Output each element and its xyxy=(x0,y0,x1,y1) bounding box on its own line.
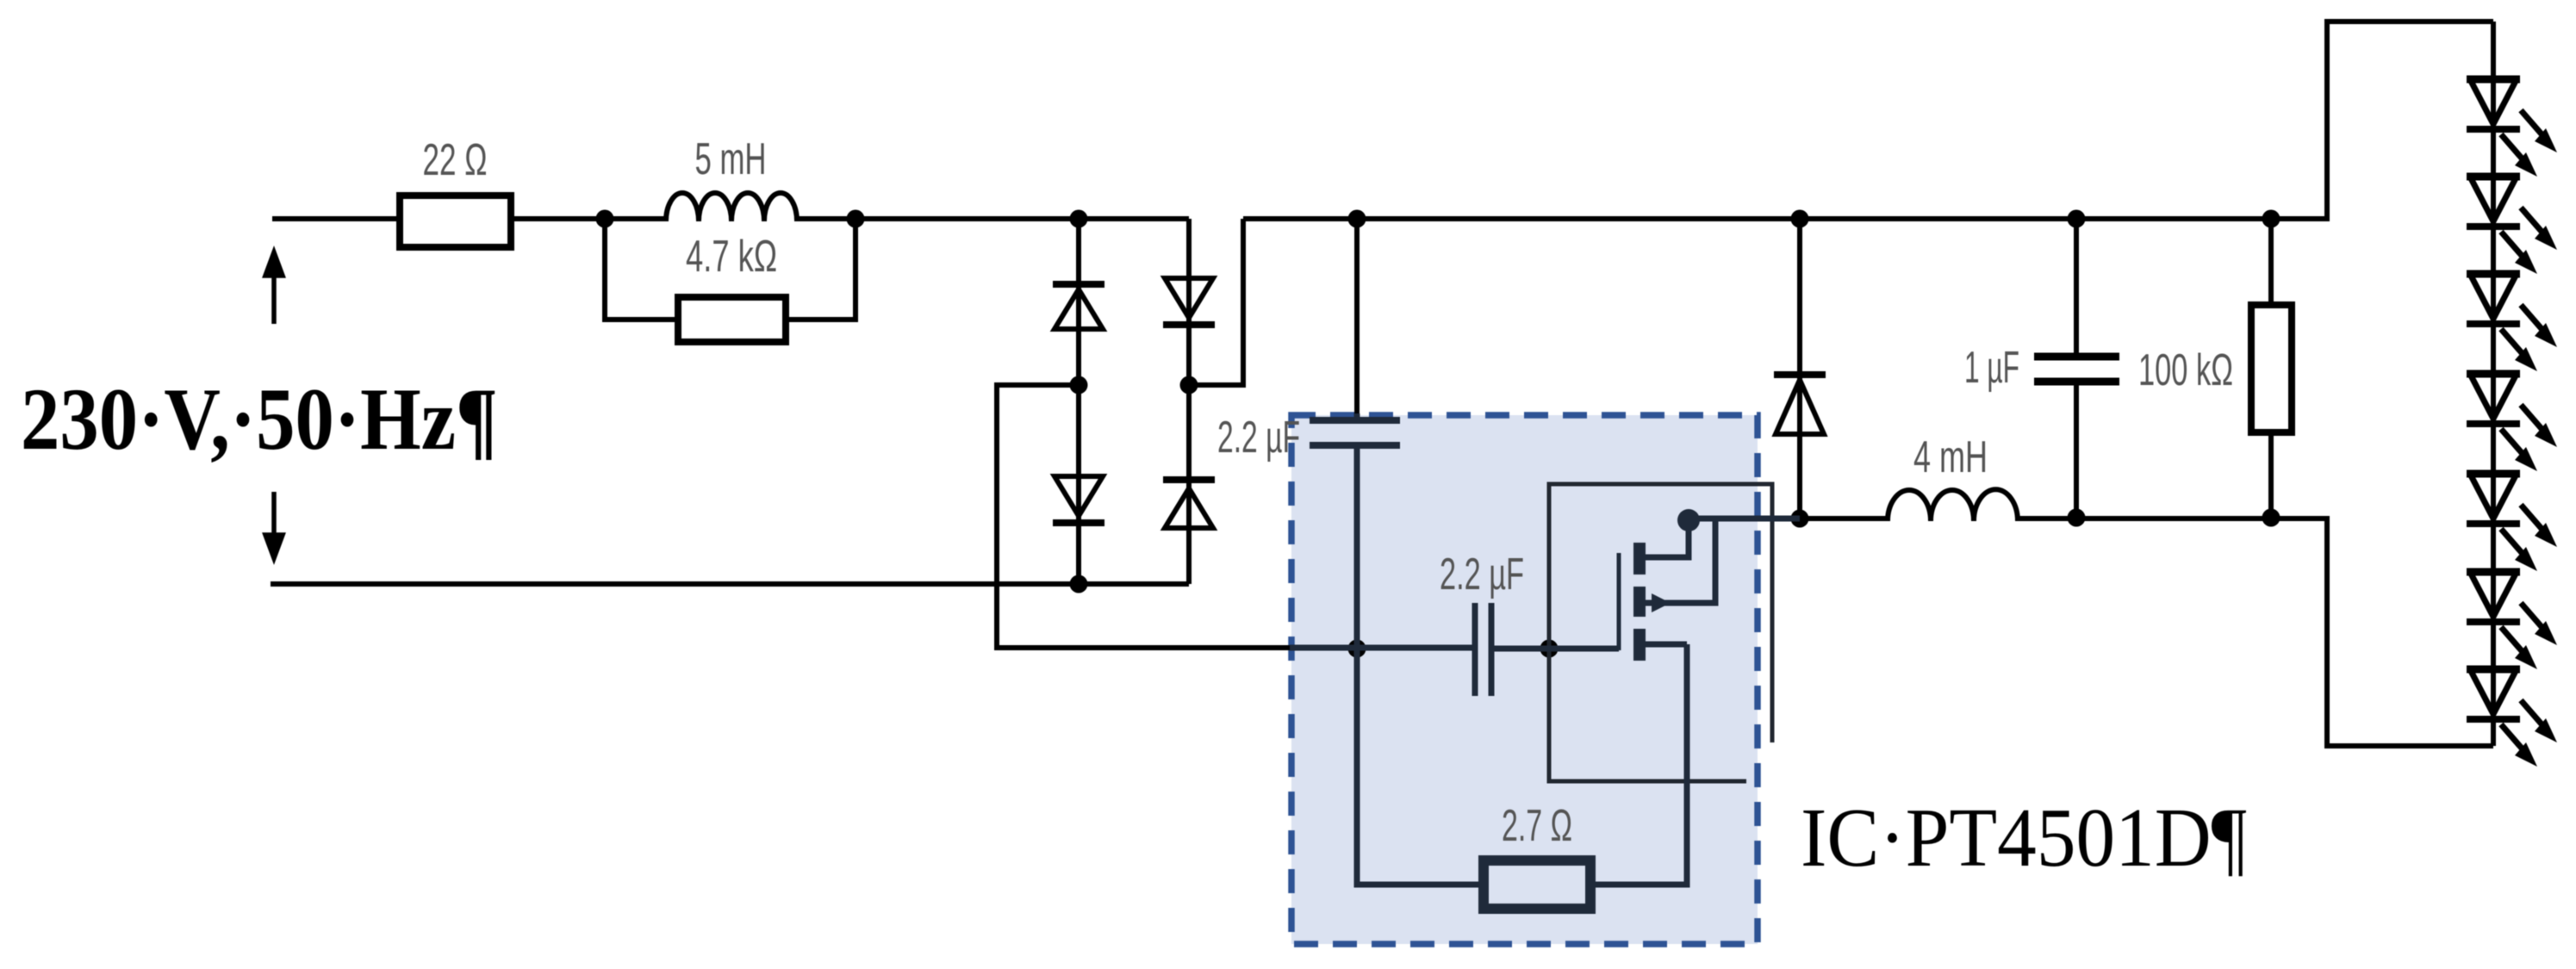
svg-text:5 mH: 5 mH xyxy=(695,134,767,184)
svg-text:22 Ω: 22 Ω xyxy=(423,135,488,185)
svg-text:4.7 kΩ: 4.7 kΩ xyxy=(686,232,777,282)
svg-text:2.2 µF: 2.2 µF xyxy=(1217,413,1300,463)
svg-text:2.7 Ω: 2.7 Ω xyxy=(1502,801,1572,851)
svg-text:230·V,·50·Hz¶: 230·V,·50·Hz¶ xyxy=(21,370,498,469)
svg-text:4 mH: 4 mH xyxy=(1913,432,1988,482)
svg-text:IC·PT4501D¶: IC·PT4501D¶ xyxy=(1801,792,2247,884)
svg-text:100 kΩ: 100 kΩ xyxy=(2138,345,2233,395)
svg-text:1 µF: 1 µF xyxy=(1964,343,2019,393)
svg-text:2.2 µF: 2.2 µF xyxy=(1440,550,1524,599)
